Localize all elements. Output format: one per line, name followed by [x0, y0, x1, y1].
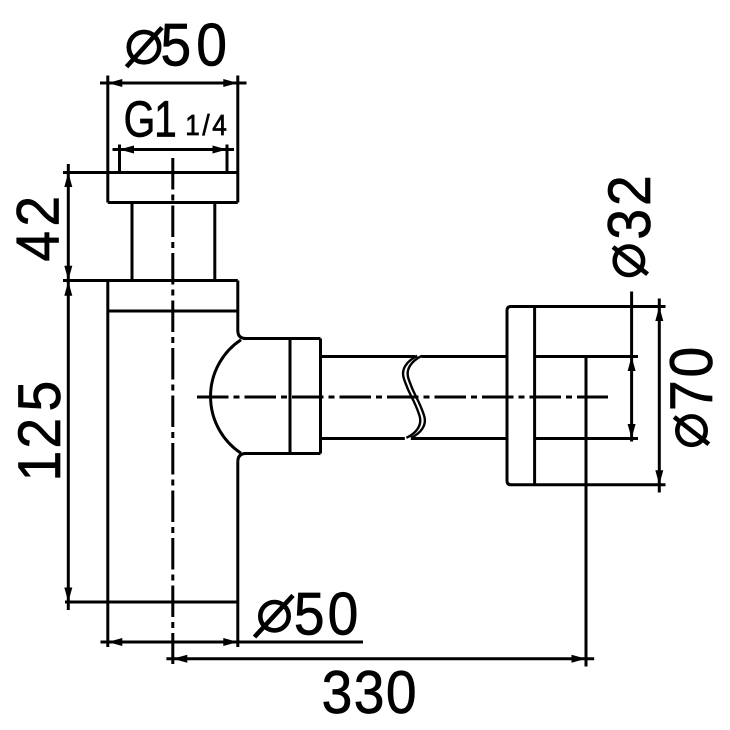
wall flange bottom line and Ø70 extension [511, 483, 666, 486]
svg-text:1: 1 [7, 451, 74, 482]
svg-text:5: 5 [294, 582, 325, 649]
horizontal centerline [197, 396, 608, 399]
svg-text:1: 1 [185, 109, 200, 141]
svg-text:3: 3 [354, 660, 385, 727]
svg-text:G: G [124, 90, 156, 147]
pipe top line segments [321, 355, 639, 358]
dimension Ø50 top: arrows [108, 79, 123, 87]
wall flange rounded left corners [507, 307, 511, 485]
dimension Ø32: arrows [628, 357, 636, 372]
label Ø32 rotated: diameter symbol [613, 247, 648, 275]
dimension 42/125 shared dimension line [67, 164, 70, 610]
svg-text:3: 3 [597, 209, 664, 240]
dimension G1 1/4: extension lines [118, 145, 121, 172]
dimension 42 arrows [64, 173, 72, 188]
label G1 [124, 90, 177, 147]
top flange of inlet nut [63, 173, 238, 203]
svg-text:2: 2 [597, 175, 664, 206]
pipe end and 330 extension line [585, 356, 588, 667]
dimension Ø50 bottom: extension lines [106, 602, 109, 647]
pipe break S-curve right [408, 356, 425, 438]
svg-text:1: 1 [154, 90, 177, 147]
svg-text:0: 0 [328, 582, 359, 649]
vertical centerline [171, 158, 174, 664]
lower flange / body top [63, 281, 238, 312]
outlet nut dome arc [211, 340, 241, 453]
dimension Ø50 bottom: arrows [108, 638, 123, 646]
svg-text:7: 7 [659, 380, 726, 411]
label 125 rotated [7, 381, 74, 482]
dimension Ø50 top: dimension line [100, 82, 247, 85]
dimension 125 arrows [64, 281, 72, 296]
dimension Ø32: dimension line [630, 292, 633, 442]
svg-text:4: 4 [5, 231, 72, 262]
svg-text:2: 2 [7, 418, 74, 449]
label Ø50 top: diameter symbol [127, 28, 163, 67]
label Ø32 rotated: digits [597, 175, 664, 239]
svg-text:4: 4 [212, 109, 227, 141]
svg-text:2: 2 [5, 196, 72, 227]
svg-text:/: / [202, 109, 210, 141]
inlet neck [132, 203, 215, 281]
label Ø70 rotated: digits [659, 347, 726, 411]
svg-text:0: 0 [386, 660, 417, 727]
svg-text:5: 5 [7, 381, 74, 412]
body right edge lower [236, 462, 239, 602]
label Ø70 rotated: diameter symbol [674, 416, 709, 444]
pipe break S-curve left [403, 356, 420, 438]
outlet nut top line [244, 337, 321, 340]
label Ø50 bottom: digits [294, 582, 358, 649]
dimension 330: arrows [173, 655, 188, 663]
dimension G1 1/4: arrows [120, 146, 135, 154]
dimension Ø70: dimension line [658, 299, 661, 493]
pipe bottom line segments [321, 437, 639, 440]
body left edge [106, 281, 109, 603]
outlet nut right vertical [319, 339, 322, 454]
outlet nut top fillet [238, 331, 246, 339]
svg-text:3: 3 [322, 660, 353, 727]
outlet nut bottom line [244, 452, 321, 455]
label 330 [322, 660, 417, 727]
label Ø50 bottom: diameter symbol [255, 595, 294, 637]
body right edge upper [236, 281, 239, 332]
wall flange right vertical [533, 307, 536, 485]
body bottom [65, 601, 238, 604]
dimension 330: dimension line [166, 657, 594, 660]
wall flange top line and Ø70 extension [511, 305, 666, 308]
dimension G1 1/4: dimension line [113, 148, 235, 151]
label Ø50 top: digits [161, 12, 227, 79]
svg-text:0: 0 [196, 12, 227, 79]
outlet nut bottom fillet [238, 454, 246, 462]
dimension Ø50 bottom: dimension line with leader [101, 641, 364, 644]
dimension Ø70: arrows [655, 307, 663, 322]
outlet nut inner vertical [289, 339, 292, 454]
svg-text:0: 0 [659, 347, 726, 378]
label 1/4 [185, 109, 227, 141]
svg-text:5: 5 [161, 12, 192, 79]
label 42 rotated [5, 196, 72, 262]
dimension Ø50 top: extension lines [106, 76, 109, 173]
